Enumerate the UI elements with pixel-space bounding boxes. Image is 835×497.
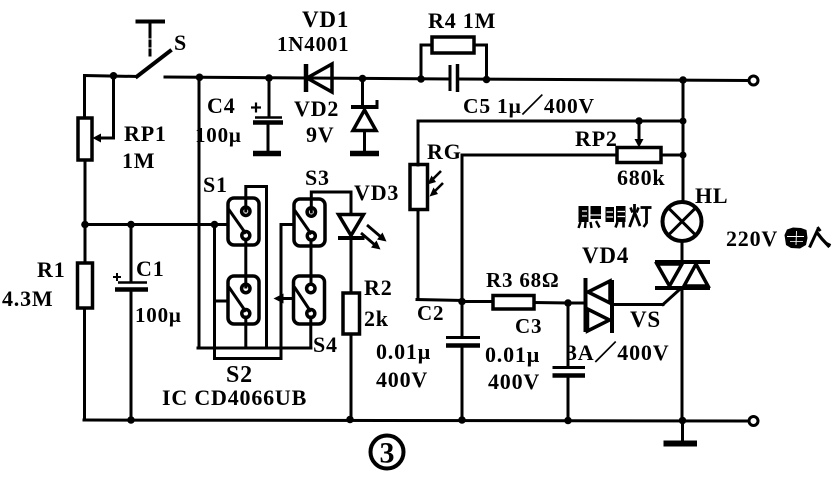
wire bus B: [215, 357, 282, 360]
node RP2 wiper tap: [635, 117, 643, 125]
switch S2: [228, 276, 259, 324]
svg-text:VD3: VD3: [354, 180, 399, 205]
svg-text:VD1: VD1: [302, 7, 349, 32]
triac VS: [655, 262, 710, 421]
svg-text:IC CD4066UB: IC CD4066UB: [162, 385, 307, 410]
diac VD4: [569, 278, 663, 333]
svg-text:R4 1M: R4 1M: [428, 8, 496, 33]
node R2 bottom: [346, 416, 354, 424]
potentiometer RP1: [78, 76, 114, 160]
svg-text:RP2: RP2: [575, 126, 618, 151]
node R3 left: [458, 298, 466, 306]
node input-S2 branch: [211, 221, 219, 229]
resistor R3: [462, 296, 568, 310]
wire S2 bottom lead: [244, 317, 247, 348]
wire RG top row: [418, 121, 683, 165]
svg-text:S: S: [174, 30, 187, 55]
svg-text:100μ: 100μ: [195, 123, 242, 147]
wire S1-S2 link: [244, 240, 247, 287]
node C1 top: [127, 221, 135, 229]
capacitor C1: [113, 225, 148, 420]
svg-text:100μ: 100μ: [135, 303, 182, 327]
label deng: [630, 204, 652, 227]
svg-text:4.3M: 4.3M: [2, 286, 53, 311]
node R4 left: [417, 75, 425, 83]
wire right rail upper: [682, 80, 685, 202]
wire VDD drop: [198, 78, 201, 349]
svg-text:R3 68Ω: R3 68Ω: [486, 268, 560, 292]
node VDD top: [196, 74, 204, 82]
capacitor C5: [450, 64, 458, 92]
terminal bottom-right: [749, 417, 758, 426]
svg-text:2k: 2k: [364, 306, 389, 331]
svg-text:R2: R2: [364, 275, 393, 300]
wire RC input node: [85, 223, 228, 226]
capacitor C3: [553, 304, 586, 421]
svg-text:C1: C1: [136, 256, 165, 281]
capacitor C2: [446, 338, 480, 421]
resistor R1: [78, 263, 93, 308]
wire S4 control arrow: [274, 294, 294, 304]
wire top-left segment: [85, 76, 138, 77]
figure number 3: [371, 436, 404, 470]
terminal top-right: [749, 76, 758, 85]
wire C2 rail: [461, 155, 464, 336]
wire S3 control branch: [281, 225, 294, 359]
wire S4 bottom lead: [309, 317, 312, 348]
svg-text:HL: HL: [695, 183, 728, 208]
zener VD2: [351, 78, 379, 151]
svg-text:RG: RG: [427, 139, 462, 164]
node right rail row2: [680, 152, 687, 159]
node C2 bottom: [458, 416, 466, 424]
wire S3-S4 link: [310, 241, 313, 283]
wire bottom rail: [84, 420, 747, 421]
potentiometer RP2: [462, 121, 683, 163]
node triac bottom: [679, 417, 687, 425]
svg-text:VS: VS: [630, 307, 661, 332]
node RP1-R1: [81, 221, 89, 229]
svg-text:400V: 400V: [376, 367, 428, 392]
node C1 bottom: [127, 416, 135, 424]
svg-text:C4: C4: [207, 93, 236, 118]
resistor R4: [421, 37, 487, 79]
node R4 right: [483, 76, 491, 84]
label zhao: [579, 206, 602, 228]
node top-right branch: [679, 76, 687, 84]
svg-text:3: 3: [380, 437, 396, 470]
label ming: [606, 206, 626, 228]
svg-text:R1: R1: [37, 257, 66, 282]
LED VD3: [311, 192, 386, 293]
switch S3: [294, 199, 325, 246]
wire S1 top loop: [246, 187, 267, 349]
node right rail row1: [680, 118, 687, 125]
lamp HL: [663, 202, 702, 262]
svg-text:400V: 400V: [488, 369, 540, 394]
node switch-RP1: [110, 72, 118, 80]
resistor R2: [343, 293, 360, 420]
label ru: [810, 227, 831, 248]
switch S1: [228, 198, 259, 245]
wire bus A: [198, 347, 311, 350]
svg-text:1M: 1M: [122, 148, 155, 173]
svg-text:S3: S3: [305, 165, 330, 190]
svg-text:9V: 9V: [306, 122, 335, 147]
svg-text:0.01μ: 0.01μ: [485, 342, 540, 367]
svg-text:C5 1μ／400V: C5 1μ／400V: [463, 94, 595, 118]
svg-text:VD4: VD4: [582, 243, 629, 268]
svg-text:S1: S1: [203, 172, 228, 197]
svg-text:680k: 680k: [617, 165, 665, 190]
label shu: [785, 228, 808, 249]
ground VD2: [350, 151, 379, 157]
svg-text:C2: C2: [417, 301, 444, 325]
node C4 top: [265, 74, 273, 82]
ground main: [664, 421, 698, 444]
switch S: [137, 22, 170, 77]
diode VD1: [306, 64, 332, 92]
svg-text:220V: 220V: [726, 226, 778, 251]
photoresistor RG: [410, 165, 462, 301]
svg-text:3A／400V: 3A／400V: [566, 340, 669, 365]
svg-text:S4: S4: [313, 332, 338, 357]
svg-text:1N4001: 1N4001: [277, 32, 349, 56]
wire top rail: [165, 77, 747, 81]
switch S4: [294, 276, 325, 324]
svg-text:VD2: VD2: [294, 96, 339, 121]
svg-text:RP1: RP1: [124, 121, 167, 146]
node C3 top: [564, 299, 572, 307]
svg-text:0.01μ: 0.01μ: [376, 339, 431, 364]
capacitor C4: [251, 78, 283, 151]
wire S2 control branch: [215, 225, 229, 358]
ground C4: [253, 151, 281, 157]
node VD2 top: [359, 75, 367, 83]
node C3 bottom: [564, 417, 572, 425]
svg-text:C3: C3: [515, 314, 542, 338]
wire left rail: [83, 76, 87, 421]
